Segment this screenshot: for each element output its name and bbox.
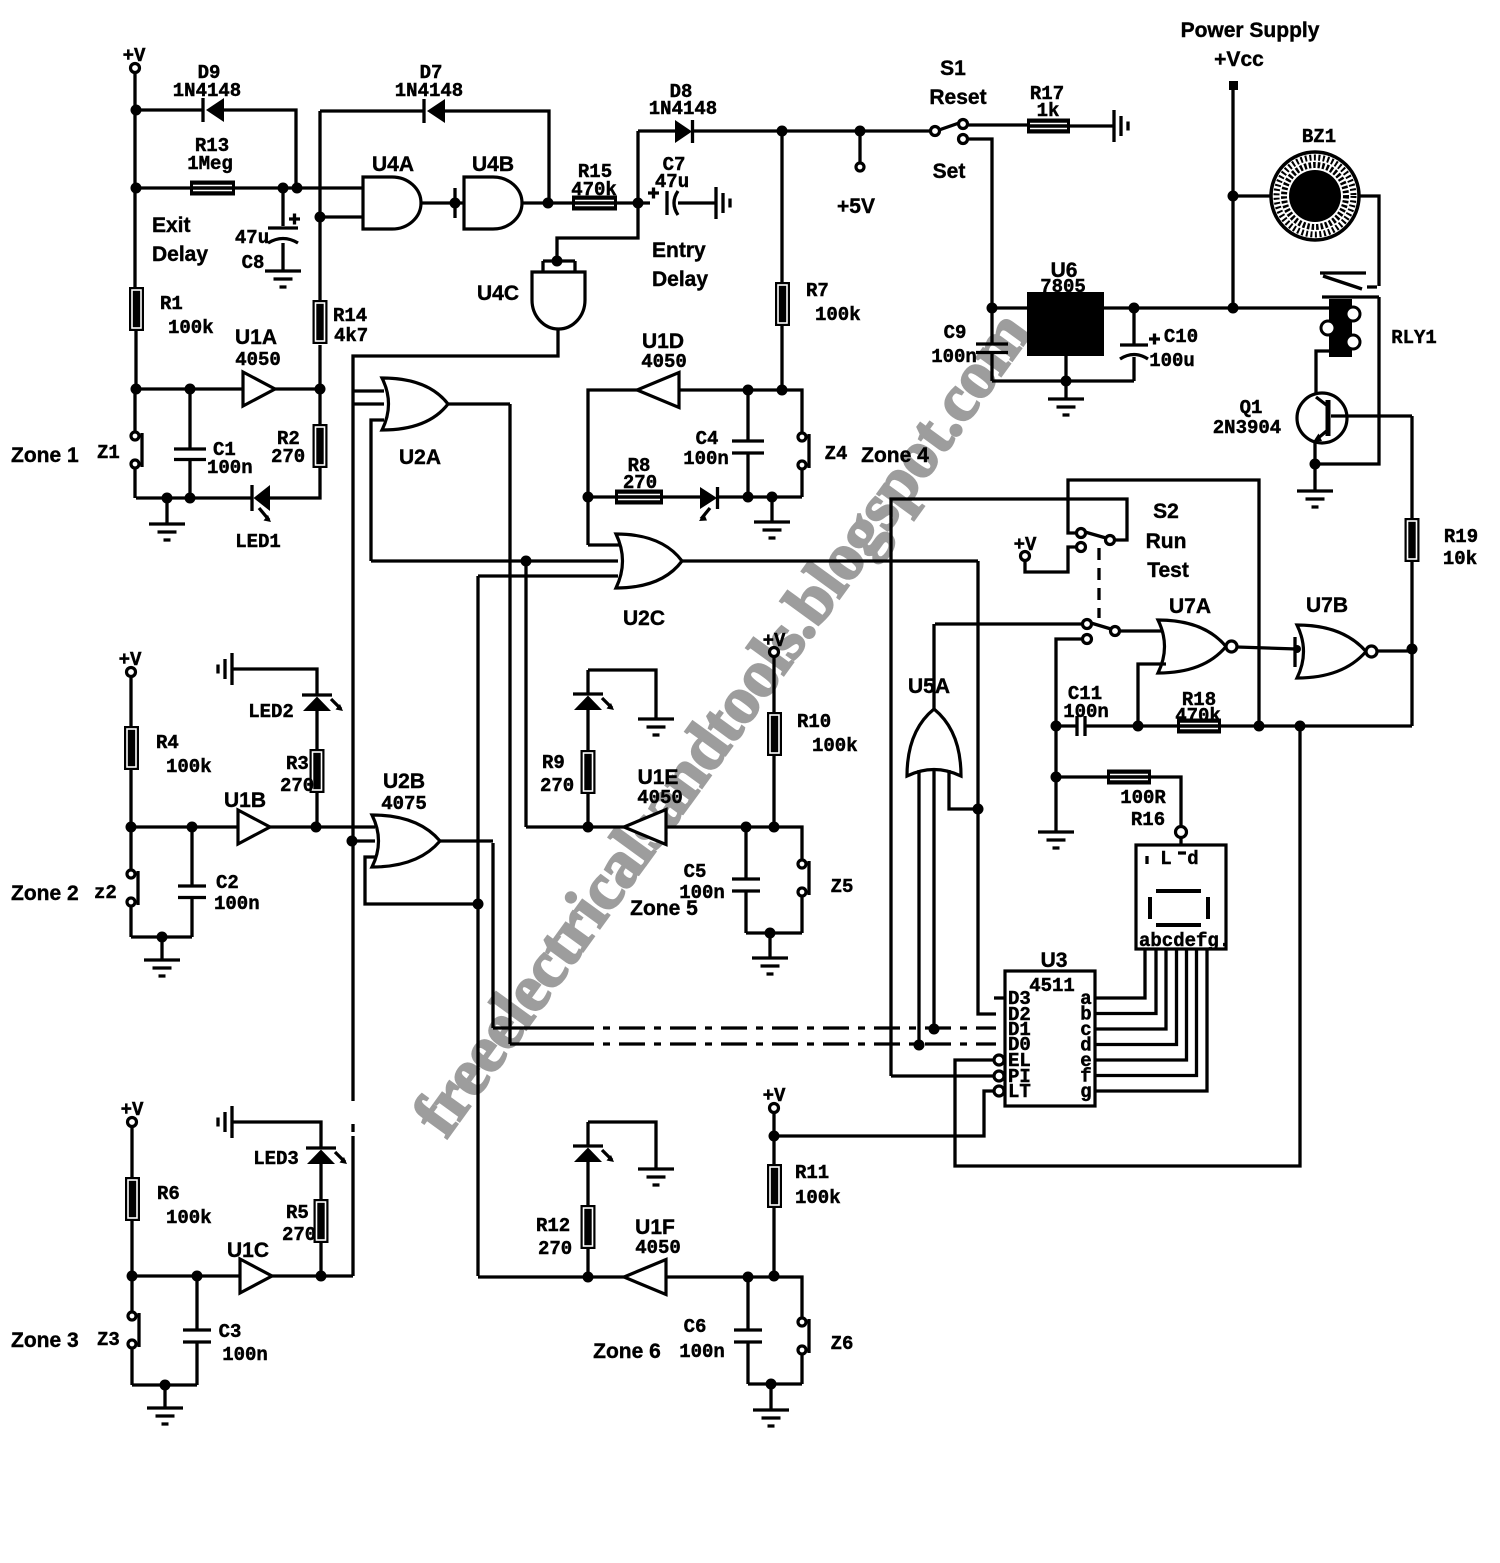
junction U4B tie <box>450 198 461 209</box>
ground LED3 <box>218 1106 232 1138</box>
svg-text:R12: R12 <box>536 1215 570 1237</box>
svg-text:47u: 47u <box>655 171 689 193</box>
svg-text:Entry: Entry <box>652 239 706 262</box>
svg-text:4050: 4050 <box>641 351 687 373</box>
resistor R19 <box>1405 518 1420 562</box>
wire Z3 top <box>130 1276 133 1312</box>
junction U1A out <box>315 384 326 395</box>
wire U5A out <box>932 624 935 709</box>
junction D2/U5A <box>973 804 984 815</box>
wire U2C output line <box>682 559 978 562</box>
wire R8 line <box>588 495 615 498</box>
capacitor C6 <box>679 1277 762 1384</box>
ic U3 <box>1005 949 1095 1106</box>
resistor R4 <box>124 726 139 770</box>
resistor R12 <box>581 1205 596 1249</box>
capacitor C4 <box>683 390 764 497</box>
wire D0 bus <box>510 404 568 1044</box>
svg-text:U7A: U7A <box>1169 595 1211 618</box>
svg-text:R19: R19 <box>1444 526 1478 548</box>
svg-text:+V: +V <box>119 649 142 671</box>
resistor R8 <box>615 490 663 505</box>
nand-gate U4B <box>464 177 522 229</box>
svg-text:Run: Run <box>1146 530 1187 553</box>
node +V S2 <box>1014 534 1037 561</box>
resistor R1 <box>129 287 144 331</box>
svg-text:U2B: U2B <box>383 770 425 793</box>
junction C3 top <box>192 1271 203 1282</box>
junction emitter <box>1310 459 1321 470</box>
svg-text:270: 270 <box>538 1238 572 1260</box>
resistor R2 <box>313 424 328 468</box>
wire U1E riser <box>524 561 527 827</box>
junction EL riser <box>1295 721 1306 732</box>
wire R15 to C7 <box>617 201 650 204</box>
svg-text:C3: C3 <box>219 1321 242 1343</box>
wire PI riser <box>891 499 1127 1076</box>
wire R1 bottom <box>134 331 137 389</box>
junction R3 bottom <box>311 822 322 833</box>
capacitor C7 <box>648 154 716 215</box>
switch S2 upper <box>1077 529 1115 552</box>
wire Q1 base <box>1331 414 1412 417</box>
wire LED6 top <box>586 1122 589 1146</box>
wire R7 top <box>780 131 783 282</box>
svg-text:Delay: Delay <box>152 243 208 266</box>
svg-text:Z5: Z5 <box>831 876 854 898</box>
wire Z5 bottom <box>800 896 803 933</box>
wire D3 stub <box>994 996 1005 999</box>
wire U3 g to display <box>1095 949 1207 1091</box>
nor-gate U7B bubble <box>1366 646 1377 657</box>
junction C8 tap <box>278 183 289 194</box>
junction C2 top <box>187 822 198 833</box>
svg-text:L: L <box>1160 848 1171 870</box>
ground LED6 <box>638 1169 674 1185</box>
junction C5 top <box>741 822 752 833</box>
svg-text:7805: 7805 <box>1040 276 1086 298</box>
wire gnd6 stem <box>769 1384 772 1410</box>
wire diode to Z4 <box>718 495 802 498</box>
svg-text:R11: R11 <box>795 1162 829 1184</box>
ground C8 <box>265 271 301 287</box>
svg-text:4050: 4050 <box>637 787 683 809</box>
node +V R11 <box>763 1085 786 1113</box>
svg-text:U1B: U1B <box>224 789 266 812</box>
junction U7B out <box>1407 644 1418 655</box>
wire R10 bottom <box>772 756 775 827</box>
wire U2A out <box>448 402 510 405</box>
wire +V zone3 <box>130 1126 133 1177</box>
node +V zone1 terminal <box>123 45 146 73</box>
svg-text:U1C: U1C <box>227 1239 269 1262</box>
junction C1 bottom <box>185 493 196 504</box>
capacitor C2 <box>178 827 260 937</box>
wire BZ1 right <box>1359 196 1379 286</box>
led LED zone6 <box>573 1146 614 1162</box>
wire R3 bottom <box>315 793 318 827</box>
capacitor C3 <box>183 1276 268 1385</box>
ground zone5 <box>752 958 788 974</box>
resistor R9 <box>581 750 596 794</box>
svg-text:270: 270 <box>623 472 657 494</box>
junction zone3 node <box>127 1271 138 1282</box>
buffer U1A body <box>243 372 275 406</box>
wire EL loop <box>955 726 1300 1166</box>
wire LT loop <box>774 1091 994 1136</box>
wire Z6 bottom <box>800 1354 803 1384</box>
svg-text:+V: +V <box>123 45 146 67</box>
svg-text:100k: 100k <box>812 735 858 757</box>
svg-text:1N4148: 1N4148 <box>649 98 717 120</box>
svg-text:C9: C9 <box>944 322 967 344</box>
wire U3 a to display <box>1095 949 1145 998</box>
svg-text:LED3: LED3 <box>253 1148 299 1170</box>
wire U4C out <box>353 330 558 391</box>
wire Q1 gnd stem <box>1313 464 1316 491</box>
wire S1 reset to R17 <box>967 123 1027 126</box>
wire D7 rail <box>320 109 424 112</box>
switch Z6 <box>798 1318 809 1354</box>
wire R18 right <box>1221 724 1412 727</box>
wire U4B input tie bar <box>453 188 456 218</box>
svg-text:+Vcc: +Vcc <box>1214 48 1264 71</box>
svg-text:U5A: U5A <box>908 675 950 698</box>
resistor R3 <box>310 749 325 793</box>
ground LED2 <box>218 653 232 685</box>
wire R10 top <box>772 656 775 712</box>
ground U6 <box>1048 399 1084 415</box>
wire D8 left <box>638 129 675 132</box>
junction C4 bottom <box>743 492 754 503</box>
wire U1F in <box>666 1277 802 1318</box>
wire S2 box <box>1068 480 1259 726</box>
wire Z2 bottom <box>129 906 132 937</box>
wire R9 bottom <box>586 794 589 827</box>
junction U7B in <box>1293 645 1301 653</box>
node +Vcc terminal <box>1229 81 1238 90</box>
resistor R18 <box>1177 719 1221 734</box>
svg-text:abcdefg.: abcdefg. <box>1139 930 1230 952</box>
or-gate U5A body <box>907 709 961 776</box>
wire LED5 gnd line <box>588 670 656 719</box>
junction +V/D9 <box>131 105 142 116</box>
wire LED5 to R9 <box>586 710 589 750</box>
wire zone1 bottom <box>136 496 252 499</box>
wire gnd2 stem <box>160 937 163 960</box>
wire D7 to U4B out <box>445 111 549 203</box>
wire zone1 input <box>136 387 243 390</box>
buffer U1F <box>624 1260 666 1295</box>
wire D1 bus <box>493 843 568 1028</box>
wire zone3 input <box>132 1274 240 1277</box>
wire U7B out <box>1377 649 1412 652</box>
switch S1 <box>931 120 968 144</box>
wire U6 gnd stem2 <box>1064 381 1067 399</box>
wire U1D in <box>679 390 802 433</box>
wire gnd4 stem <box>770 497 773 522</box>
wire U7A out <box>1237 647 1297 649</box>
svg-text:100n: 100n <box>207 457 253 479</box>
svg-text:2N3904: 2N3904 <box>1213 417 1281 439</box>
junction gnd6 <box>766 1379 777 1390</box>
svg-text:R14: R14 <box>333 305 367 327</box>
pin EL U3 <box>994 1050 1031 1072</box>
svg-text:LED2: LED2 <box>248 701 294 723</box>
svg-text:U1F: U1F <box>635 1216 675 1239</box>
svg-text:C6: C6 <box>684 1316 707 1338</box>
svg-text:Exit: Exit <box>152 214 191 237</box>
svg-text:R9: R9 <box>542 752 565 774</box>
svg-text:S1: S1 <box>940 57 966 80</box>
svg-text:270: 270 <box>271 446 305 468</box>
wire zone5 bottom <box>746 931 802 934</box>
wire R8 node to U2C <box>586 497 589 545</box>
capacitor C5 <box>679 827 760 933</box>
diode D9 <box>173 62 241 122</box>
svg-text:C4: C4 <box>696 428 719 450</box>
junction +V/R13 <box>131 183 142 194</box>
svg-text:Zone 3: Zone 3 <box>11 1329 79 1352</box>
wire U6 gnd stem <box>1064 356 1067 381</box>
wire D7 left vert <box>318 111 321 300</box>
svg-text:47u: 47u <box>235 227 269 249</box>
wire U3 c to display <box>1095 949 1166 1029</box>
wire LED2 to R3 <box>315 711 318 749</box>
junction D0/U5A <box>914 1040 925 1051</box>
svg-text:1Meg: 1Meg <box>187 153 233 175</box>
svg-text:4050: 4050 <box>235 349 281 371</box>
svg-text:Zone 1: Zone 1 <box>11 444 79 467</box>
pin PI U3 <box>994 1066 1031 1088</box>
led LED3 <box>253 1148 347 1170</box>
svg-text:+V: +V <box>763 630 786 652</box>
svg-text:U1A: U1A <box>235 326 277 349</box>
svg-text:C8: C8 <box>242 252 265 274</box>
svg-text:BZ1: BZ1 <box>1302 126 1336 148</box>
wire D9 top rail <box>139 108 203 111</box>
led LED2 <box>248 695 343 723</box>
junction C11 left <box>1051 721 1062 732</box>
wire zone3 bottom <box>132 1383 197 1386</box>
node +V zone3 <box>121 1099 144 1127</box>
svg-text:R6: R6 <box>157 1183 180 1205</box>
wire U1C out <box>272 1274 353 1277</box>
diode zone4 <box>699 487 718 521</box>
wire R13 left <box>136 186 190 189</box>
buffer U1B <box>238 810 270 844</box>
node display common pin <box>1176 827 1187 838</box>
wire U3 b to display <box>1095 949 1156 1014</box>
wire R19 to U7B out <box>1410 562 1413 649</box>
svg-text:LT: LT <box>1008 1081 1031 1103</box>
wire R8 to diode <box>663 495 700 498</box>
junction R12 bottom <box>583 1272 594 1283</box>
capacitor C9 <box>931 308 1008 381</box>
wire Z3 bottom <box>130 1348 133 1385</box>
ground R17 <box>1114 110 1128 142</box>
svg-text:100n: 100n <box>931 346 977 368</box>
wire gnd1 stem <box>165 498 168 524</box>
wire U6 input <box>992 306 1027 309</box>
svg-text:+V: +V <box>121 1099 144 1121</box>
svg-text:U4A: U4A <box>372 153 414 176</box>
wire U4A out <box>421 201 464 204</box>
wire D8 to S1 <box>692 129 931 132</box>
svg-text:Reset: Reset <box>929 86 986 109</box>
resistor R15 <box>572 196 617 211</box>
svg-text:z2: z2 <box>94 882 117 904</box>
wire U5A in1 <box>917 770 920 1045</box>
wire R5 bottom <box>319 1243 322 1276</box>
svg-text:Set: Set <box>933 160 966 183</box>
resistor R5 <box>314 1199 329 1243</box>
transistor Q1 <box>1213 393 1347 443</box>
ground zone6 <box>753 1410 789 1426</box>
junction gnd1 <box>162 493 173 504</box>
wire U3 e to display <box>1095 949 1187 1060</box>
junction R16 tap <box>1051 772 1062 783</box>
buffer U1D <box>637 373 679 408</box>
svg-text:100R: 100R <box>1120 787 1166 809</box>
resistor R14 <box>313 300 328 344</box>
wire S2 test down <box>1056 639 1083 726</box>
wire Z1 top <box>133 389 136 432</box>
wire +V zone2 <box>129 676 132 726</box>
svg-text:Z3: Z3 <box>97 1329 120 1351</box>
wire node to R2 <box>318 389 321 424</box>
wire R6 bottom <box>130 1221 133 1276</box>
wire U7A in2 <box>1138 664 1166 726</box>
wire U5A in2 <box>932 770 935 1029</box>
wire C11 gnd <box>1054 726 1057 832</box>
wire U3 d to display <box>1095 949 1177 1045</box>
wire R16 to display <box>1151 777 1181 825</box>
nor-gate U7B body <box>1297 625 1366 678</box>
wire LED6 gnd line <box>588 1122 656 1169</box>
wire R13 right to U4A <box>235 186 363 189</box>
relay arm <box>1320 273 1377 289</box>
junction LT tap <box>769 1131 780 1142</box>
node +V R10 <box>763 630 786 657</box>
svg-text:C5: C5 <box>684 861 707 883</box>
svg-text:U3: U3 <box>1041 949 1068 972</box>
wire U2B in2 stub <box>353 839 375 842</box>
svg-text:R5: R5 <box>286 1202 309 1224</box>
svg-text:Zone 4: Zone 4 <box>861 444 929 467</box>
ground zone2 <box>144 960 180 976</box>
resistor R16 <box>1107 770 1151 785</box>
wire S2 link dashed <box>1097 548 1100 618</box>
wire R17 to gnd <box>1070 124 1114 127</box>
svg-text:C10: C10 <box>1164 326 1198 348</box>
svg-text:100n: 100n <box>214 893 260 915</box>
svg-text:100n: 100n <box>1063 701 1109 723</box>
ground C7 <box>716 187 730 219</box>
svg-text:U1D: U1D <box>642 330 684 353</box>
svg-text:270: 270 <box>280 775 314 797</box>
buffer U1E <box>624 810 666 845</box>
svg-text:R4: R4 <box>156 732 179 754</box>
svg-text:R1: R1 <box>160 293 183 315</box>
svg-text:4050: 4050 <box>635 1237 681 1259</box>
junction D7 node <box>543 198 554 209</box>
svg-text:LED1: LED1 <box>235 531 281 553</box>
junction U6 gnd <box>1061 376 1072 387</box>
svg-text:U1E: U1E <box>638 766 679 789</box>
wire zone2 bottom <box>131 935 192 938</box>
switch Z1 <box>131 432 142 468</box>
wire U4C input bracket <box>543 261 575 272</box>
junction bus2/U2B <box>473 899 484 910</box>
wire U2C in1 <box>588 543 620 546</box>
svg-text:+V: +V <box>1014 534 1037 556</box>
buffer U1C <box>240 1259 272 1293</box>
wire U6 output <box>1104 306 1329 309</box>
svg-text:d: d <box>1187 848 1198 870</box>
junction D9 tap <box>292 183 303 194</box>
svg-text:470k: 470k <box>1175 705 1221 727</box>
svg-text:100n: 100n <box>222 1344 268 1366</box>
junction R7 bottom <box>777 385 788 396</box>
junction S2 box <box>1254 721 1265 732</box>
wire Z2 top <box>129 827 132 870</box>
wire U1A out <box>275 387 320 390</box>
junction bus/U2B <box>347 836 358 847</box>
svg-text:R7: R7 <box>806 280 829 302</box>
pin LT U3 <box>994 1081 1031 1103</box>
wire U2C in2 <box>371 559 618 562</box>
svg-text:Zone 5: Zone 5 <box>630 897 698 920</box>
junction C1 top <box>185 384 196 395</box>
wire zone3 bus <box>351 391 354 1276</box>
pin D3 U3 <box>1008 988 1031 1010</box>
svg-text:100k: 100k <box>166 756 212 778</box>
wire base to R19 <box>1410 416 1413 518</box>
resistor R17 <box>1027 119 1070 134</box>
pin D2 U3 <box>1008 1004 1031 1026</box>
display 7segment <box>1136 845 1230 952</box>
wire feedback line <box>1056 724 1077 727</box>
junction R9 bottom <box>583 822 594 833</box>
wire U3 f to display <box>1095 949 1197 1076</box>
wire Z1 bottom <box>133 468 136 498</box>
nor-gate U7A body <box>1158 620 1226 673</box>
ground zone3 <box>147 1408 183 1424</box>
svg-text:270: 270 <box>282 1224 316 1246</box>
capacitor C8 <box>235 188 300 274</box>
wire U4B out <box>522 201 572 204</box>
wire +V zone1 down <box>133 72 136 287</box>
nand-gate U4C <box>532 272 585 329</box>
wire S2 to U7A <box>1119 629 1166 632</box>
nor-gate U7A bubble <box>1226 641 1237 652</box>
wire zone6 bottom <box>748 1382 802 1385</box>
switch S2 lower <box>1083 620 1120 644</box>
ground zone4 <box>754 522 790 538</box>
junction C6 top <box>743 1272 754 1283</box>
junction gnd2 <box>157 932 168 943</box>
wire ground rail U6 <box>992 379 1134 382</box>
capacitor C10 <box>1120 308 1198 381</box>
wire BZ1 left <box>1233 194 1271 197</box>
wire U4A in2 <box>320 215 363 218</box>
wire LED2 gnd line <box>232 669 317 695</box>
wire R11 top <box>772 1112 775 1164</box>
resistor R11 <box>767 1164 782 1208</box>
svg-text:U4C: U4C <box>477 282 519 305</box>
junction U1E/U2C <box>521 556 532 567</box>
